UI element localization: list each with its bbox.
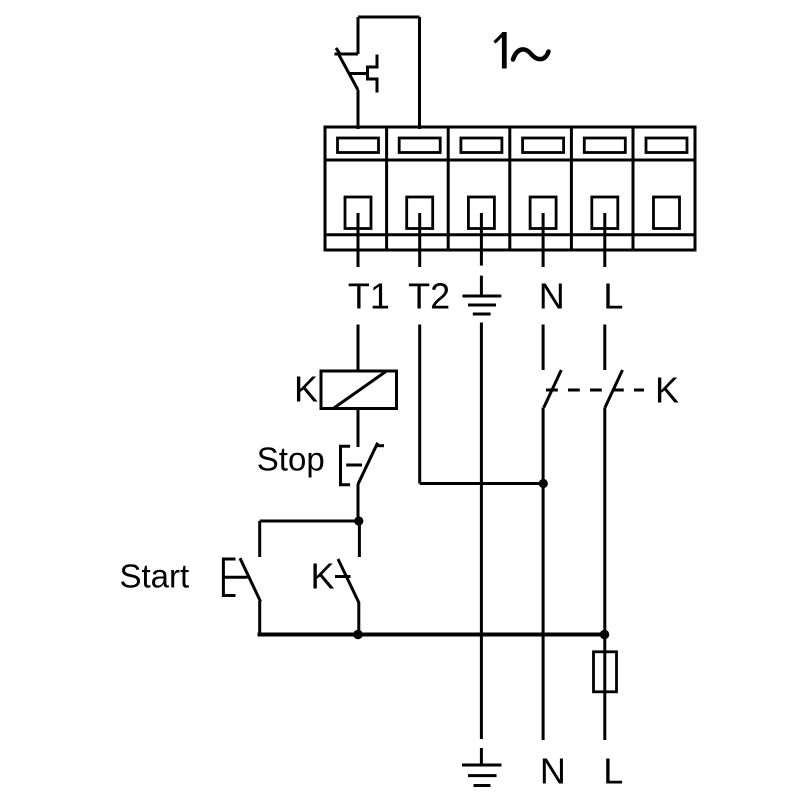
wire N upper (542, 325, 545, 371)
terminal block divider 3 (508, 127, 511, 250)
terminal 2 clamp window (399, 138, 440, 153)
wire terminal4 stub down (542, 213, 545, 267)
svg-text:Stop: Stop (257, 440, 325, 477)
wire start to bottom rail (258, 601, 261, 636)
stop button bracket (341, 446, 351, 485)
wire left branch down to start (258, 521, 261, 557)
stop contact top tick (376, 444, 385, 447)
terminal 4 clamp window (523, 138, 564, 153)
terminal block divider 2 (447, 127, 450, 250)
thermal switch bimetal element (368, 55, 378, 93)
wire junction to left branch (260, 520, 359, 523)
terminal 6 screw (654, 197, 680, 229)
terminal block divider 5 (632, 127, 635, 250)
L main contact arm (605, 370, 623, 408)
ground symbol top stub (480, 276, 483, 296)
terminal block lower separator line (325, 233, 695, 236)
terminal 6 clamp window (646, 138, 687, 153)
wire T2 horizontal to N (420, 482, 544, 485)
wire stop to junction (357, 484, 360, 521)
ground symbol top bar1 (463, 295, 502, 298)
terminal block divider 4 (570, 127, 573, 250)
ground symbol bottom stub (480, 748, 483, 765)
wire motor loop left vertical lower (357, 90, 360, 129)
terminal 4 screw (530, 197, 556, 229)
wire L upper (603, 325, 606, 371)
svg-text:K: K (311, 556, 335, 597)
wire T2 down long (418, 325, 421, 484)
ground symbol bottom bar1 (462, 764, 502, 767)
terminal 3 screw (468, 197, 494, 229)
contactor coil K diagonal (333, 371, 386, 409)
svg-text:N: N (539, 276, 565, 317)
junction dot T2-N (539, 479, 548, 488)
wire terminal5 stub down (603, 213, 606, 267)
contactor coil K box (321, 371, 397, 409)
wire motor loop right vertical (418, 17, 421, 129)
wire L through fuse to bottom (603, 635, 606, 741)
label 1~ phase (495, 33, 505, 43)
start contact arm (NO) (240, 558, 261, 601)
tilde wave of 1~ (513, 49, 549, 59)
terminal 3 clamp window (461, 138, 502, 153)
terminal 2 screw (407, 197, 433, 229)
wire terminal2 stub down (418, 213, 421, 267)
svg-text:T2: T2 (408, 276, 450, 317)
N main contact arm (544, 370, 562, 408)
terminal 1 clamp window (338, 138, 379, 153)
start button bracket (223, 559, 235, 596)
wire T1 to coil (357, 325, 360, 372)
svg-text:N: N (540, 751, 566, 792)
ground symbol bottom bar2 (468, 774, 497, 777)
svg-text:T1: T1 (348, 276, 390, 317)
K aux contact tick (335, 575, 351, 578)
thermal switch actuator link (349, 72, 368, 75)
wire N lower long (542, 408, 545, 741)
contactor linkage dashed line (546, 389, 644, 392)
wire K contact to bottom rail (357, 602, 360, 636)
ground symbol bottom bar3 (474, 784, 491, 787)
ground symbol top bar2 (468, 304, 496, 307)
ground symbol top bar3 (473, 313, 491, 316)
svg-text:K: K (294, 368, 318, 409)
terminal block outer frame (325, 127, 695, 250)
thermal switch contact arm (339, 55, 358, 90)
wire motor loop left vertical upper (357, 17, 360, 54)
fuse body (594, 652, 617, 692)
terminal block divider 1 (385, 127, 388, 250)
bottom rail wire (258, 633, 606, 637)
svg-text:K: K (655, 370, 679, 411)
wire terminal3 stub down (480, 213, 483, 266)
wire coil to stop (357, 409, 360, 448)
wire terminal1 stub down (357, 213, 360, 267)
terminal 1 screw (345, 197, 371, 229)
wire earth vertical long (480, 323, 483, 740)
wire L middle (603, 408, 606, 635)
thermal switch fixed terminal bend (335, 53, 359, 56)
terminal 5 screw (592, 197, 618, 229)
wire motor loop top horizontal (358, 16, 420, 19)
thermal switch terminal tick (336, 48, 341, 56)
terminal 5 clamp window (584, 138, 625, 153)
terminal block upper separator line (325, 159, 695, 162)
svg-text:Start: Start (120, 558, 190, 595)
wire junction down to K contact (358, 521, 361, 557)
svg-text:L: L (603, 276, 623, 317)
stop contact arm (NC) (358, 443, 378, 485)
svg-text:L: L (603, 751, 623, 792)
junction dot bottom L (600, 630, 610, 640)
stop button plunger dash (346, 464, 362, 467)
junction dot below stop (354, 516, 363, 525)
K aux contact arm (NO) (338, 559, 359, 603)
start button plunger dash (225, 576, 248, 579)
junction dot bottom K branch (353, 630, 363, 640)
